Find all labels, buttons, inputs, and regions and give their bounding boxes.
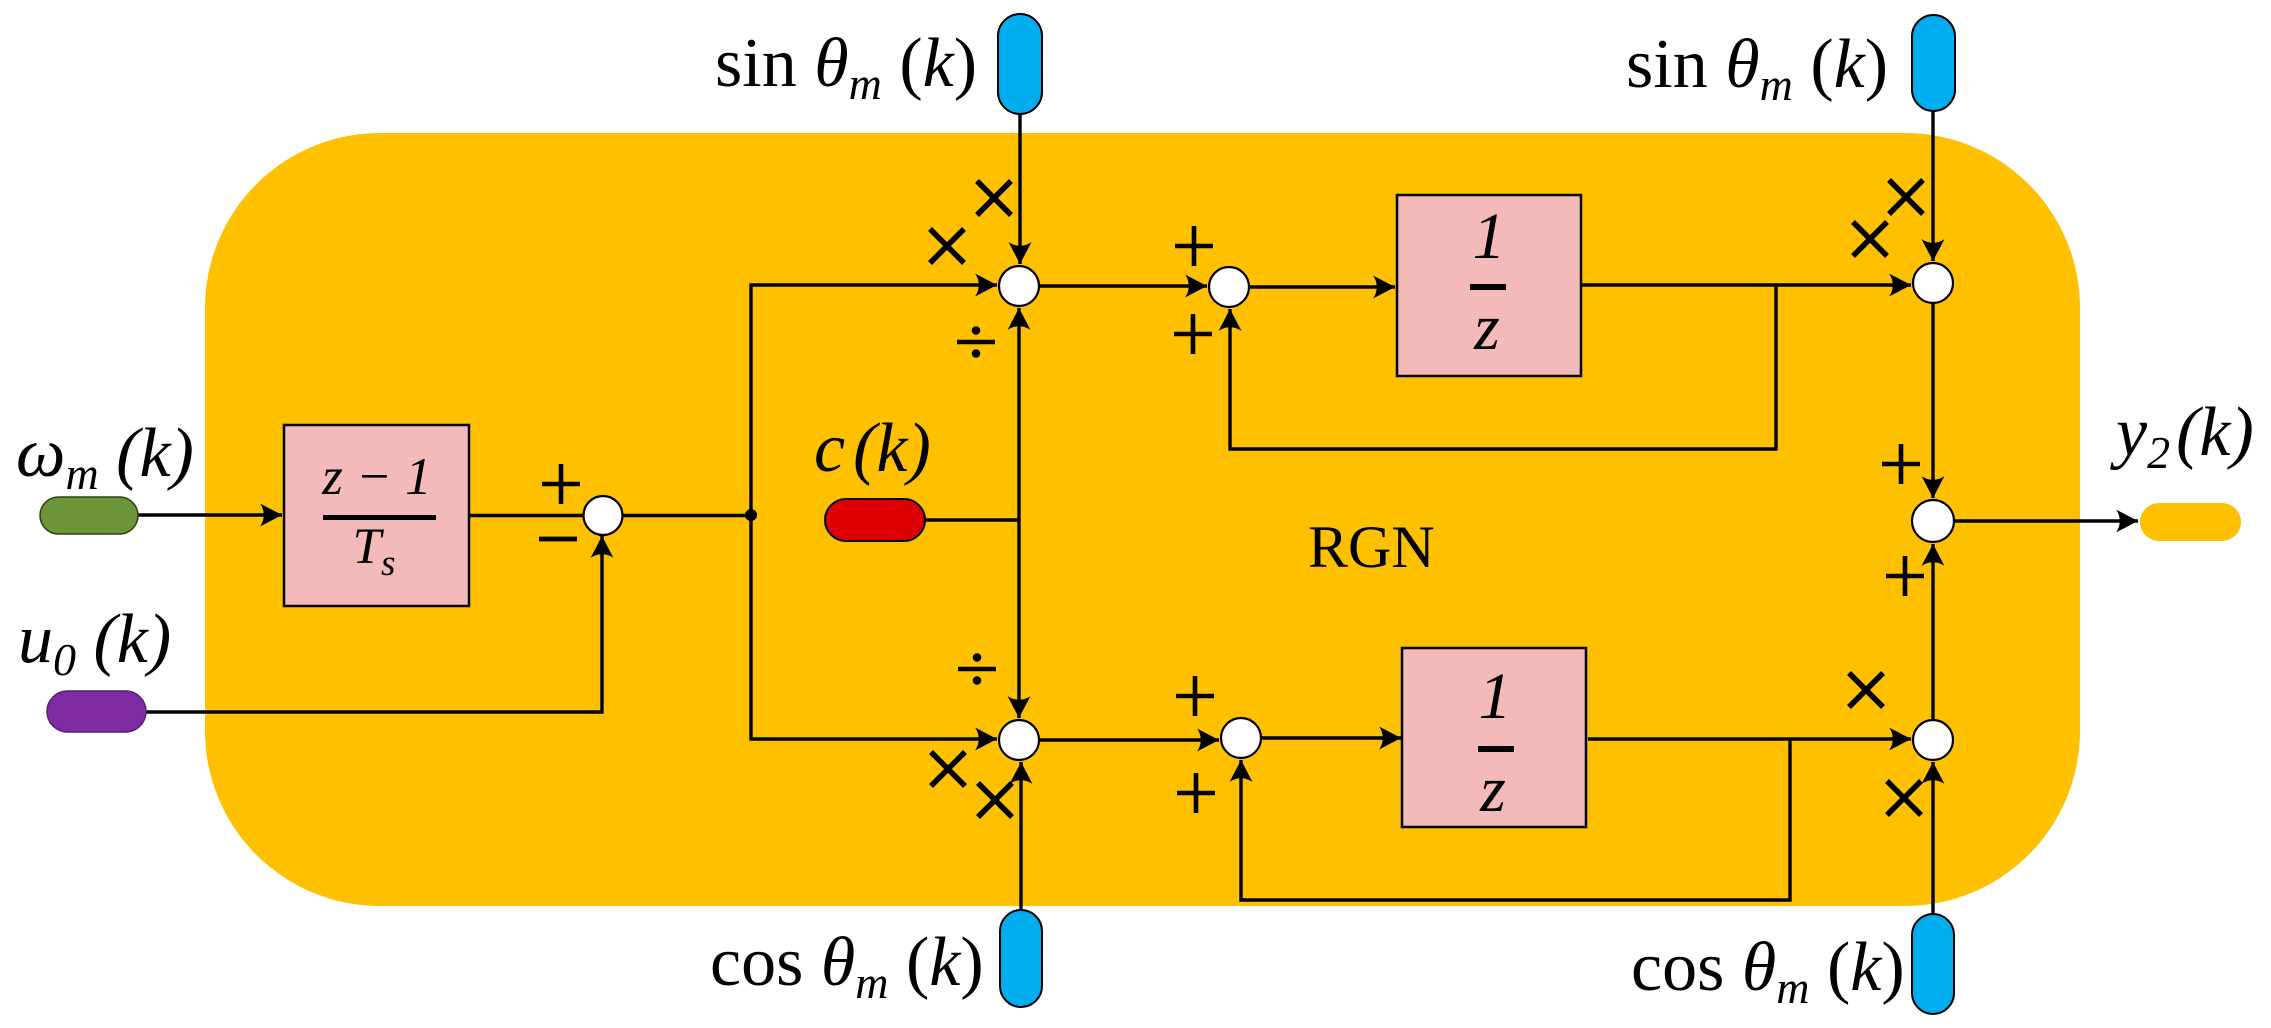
svg-text:RGN: RGN [1308, 514, 1435, 580]
svg-text:cos θm (k): cos θm (k) [1631, 929, 1905, 1013]
sign times upper at M2 [1889, 180, 1923, 214]
svg-text:z: z [1479, 753, 1506, 826]
wire: c line down into M3 [1017, 520, 1020, 718]
sign times upper at M3 [931, 752, 965, 786]
svg-text:1: 1 [1473, 200, 1506, 273]
node M1 multiplier [999, 266, 1039, 306]
pill u0 input [47, 691, 146, 732]
node M4 multiplier [1913, 720, 1953, 760]
sign divide at M3 [958, 653, 996, 685]
wire: M1 to sum S2 [1039, 284, 1207, 287]
wire: S3 to output pill y2 [1954, 519, 2138, 522]
node S1 sum [584, 496, 623, 535]
wire: u0 input up into sum S1 [146, 536, 602, 712]
pill cos bottom-left [1000, 910, 1042, 1007]
wire: omega input to derivative block [138, 513, 282, 516]
svg-text:1: 1 [1479, 660, 1512, 733]
wire: M2 down into sum S3 [1931, 303, 1934, 498]
svg-text:c(k): c(k) [814, 410, 931, 487]
sign plus lower at S4 [1177, 773, 1215, 813]
node S4 sum [1221, 718, 1261, 758]
wire: cos pill bottom-right up into M4 [1931, 762, 1934, 914]
wire: sum S1 to junction [622, 514, 752, 517]
sign plus at S1 [542, 464, 580, 504]
node S2 sum [1209, 267, 1249, 307]
wire: junction down to multiplier M3 [751, 513, 997, 739]
sign times upper at M1 [977, 181, 1011, 215]
wire: S2 to delay block top [1249, 285, 1395, 288]
sign divide at M1 [957, 326, 995, 358]
block B3 delay 1/z bottom [1402, 648, 1586, 827]
sign plus lower at S3 [1886, 556, 1924, 596]
wire: sin pill top-left down into M1 [1018, 112, 1021, 264]
svg-text:y2(k): y2(k) [2110, 394, 2254, 478]
pill c(k) [825, 499, 925, 541]
pill omega input [40, 497, 138, 534]
wire: sin pill top-right down into M2 [1931, 111, 1934, 261]
sign times lower at M2 [1853, 222, 1887, 256]
svg-text:ωm (k): ωm (k) [16, 415, 194, 499]
node M2 multiplier [1913, 263, 1953, 303]
RGN region block [205, 133, 2080, 906]
pill cos bottom-right [1912, 914, 1954, 1014]
sign plus upper at S3 [1882, 444, 1920, 484]
svg-text:cos θm (k): cos θm (k) [710, 924, 984, 1008]
svg-text:z − 1: z − 1 [321, 448, 431, 506]
node M3 multiplier [999, 720, 1039, 760]
sign plus upper at S4 [1176, 676, 1214, 716]
svg-text:sin θm (k): sin θm (k) [715, 25, 977, 109]
wire: M3 to sum S4 [1039, 738, 1219, 741]
node: junction dot [745, 509, 757, 521]
node S3 output sum [1912, 500, 1954, 542]
wire: c(k) pill to divider line [925, 518, 1019, 521]
sign plus upper at S2 [1175, 226, 1213, 266]
wire: derivative block to sum S1 [469, 514, 584, 517]
sign plus lower at S2 [1174, 314, 1212, 354]
sign times upper at M4 [1849, 673, 1883, 707]
wire: top feedback loop into S2 [1230, 285, 1776, 449]
sign times lower at M1 [930, 229, 964, 263]
sign minus at S1 [539, 537, 577, 542]
wire: delay bottom output to M4 [1588, 737, 1911, 740]
svg-text:u0 (k): u0 (k) [18, 601, 171, 685]
sign times lower at M4 [1887, 781, 1921, 815]
wire: S4 to delay block bottom [1261, 736, 1401, 739]
pill sin top-left [998, 14, 1042, 114]
wire: c line up into M1 [1017, 308, 1020, 520]
svg-text:sin θm (k): sin θm (k) [1626, 26, 1888, 110]
wire: bottom feedback loop into S4 [1241, 739, 1790, 900]
pill y2 output [2140, 503, 2241, 541]
wire: M4 up into sum S3 [1931, 544, 1934, 720]
block B2 delay 1/z top [1397, 195, 1581, 376]
block B1 derivative (z-1)/Ts [284, 425, 469, 606]
sign times lower at M3 [978, 783, 1012, 817]
wire: cos pill bottom-left up into M3 [1019, 762, 1022, 910]
wire: junction up to multiplier M1 [751, 285, 997, 517]
wire: delay top output to M2 [1581, 283, 1911, 286]
pill sin top-right [1912, 15, 1955, 111]
svg-text:z: z [1473, 291, 1500, 364]
